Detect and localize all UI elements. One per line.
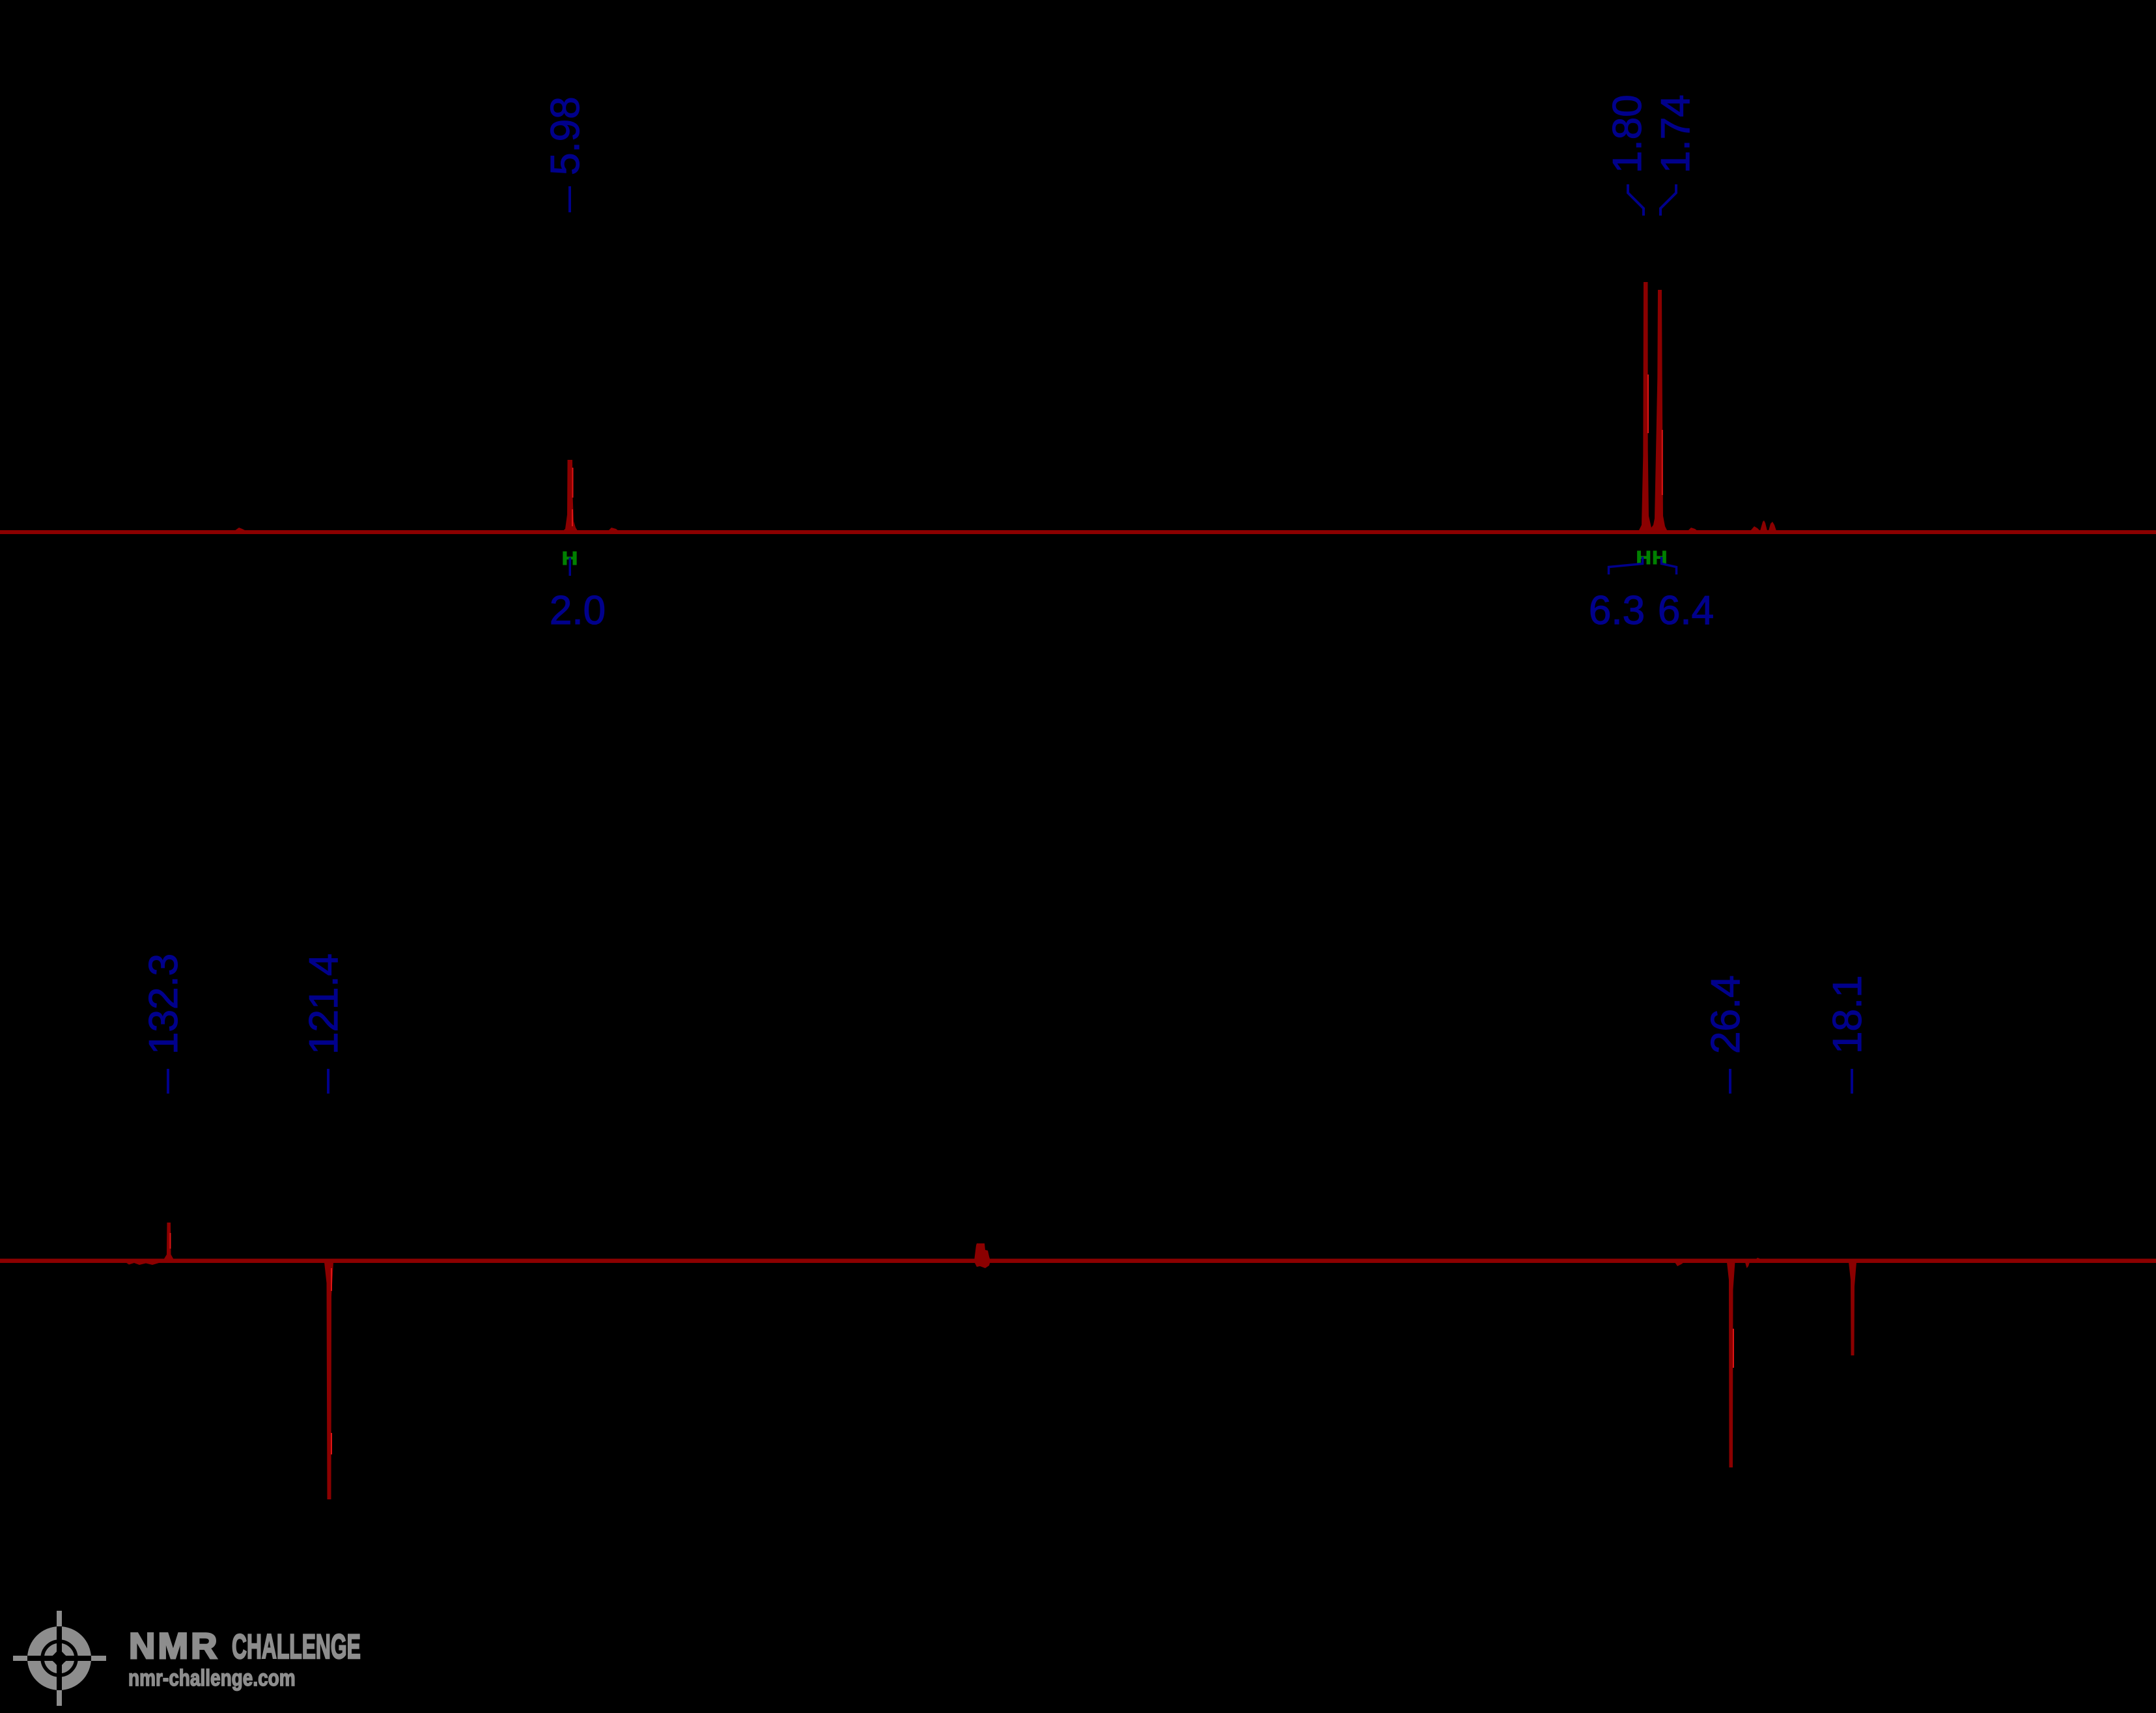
svg-text:18.1: 18.1 <box>1825 975 1870 1054</box>
peak 18.1 (down) <box>1849 1262 1856 1355</box>
svg-text:132.3: 132.3 <box>141 954 186 1055</box>
logo black ring <box>42 1641 76 1675</box>
svg-text:6.3: 6.3 <box>1589 588 1645 633</box>
logo crosshair vertical bar <box>57 1611 62 1706</box>
label tick 18.1 <box>1851 1069 1853 1094</box>
leader 1.80 <box>1628 184 1644 216</box>
peak 5.98 bright edge <box>572 468 574 498</box>
integral HH marker (doublet) <box>1636 547 1668 569</box>
peak 132.3 (up) <box>163 1223 175 1261</box>
svg-text:CHALLENGE: CHALLENGE <box>232 1628 361 1666</box>
logo text nmr-challenge.com <box>128 1665 296 1691</box>
leader 1.74 <box>1660 184 1676 216</box>
13C baseline <box>0 1259 2156 1264</box>
svg-text:121.4: 121.4 <box>301 954 346 1055</box>
svg-text:1.74: 1.74 <box>1653 94 1698 173</box>
svg-text:nmr-challenge.com: nmr-challenge.com <box>128 1665 296 1691</box>
baseline bump right of 5.98 <box>608 528 619 531</box>
label tick 5.98 <box>568 186 571 212</box>
svg-text:2.0: 2.0 <box>550 588 606 633</box>
integral H marker (5.98) <box>562 547 578 569</box>
peak 5.98 <box>561 460 579 533</box>
peak 26.4 bright edge <box>1733 1329 1734 1368</box>
logo crosshair horizontal bar <box>13 1656 106 1661</box>
satellite bumps <box>1688 528 1698 531</box>
logo black star <box>49 1649 70 1669</box>
peak 121.4 (down) <box>324 1262 333 1499</box>
logo black cross inside disc <box>57 1626 62 1690</box>
logo text CHALLENGE <box>232 1628 361 1666</box>
svg-text:6.4: 6.4 <box>1658 588 1714 633</box>
13C baseline noise left of 132.3 <box>125 1262 164 1266</box>
doublet bright edges <box>1647 375 1649 433</box>
svg-text:NMR: NMR <box>129 1625 220 1666</box>
13C noise near 26.4 <box>1675 1262 1684 1266</box>
logo disc <box>27 1626 91 1690</box>
integral tick (5.98) <box>569 558 572 576</box>
doublet peaks 1.80 / 1.74 <box>1638 282 1668 533</box>
svg-text:26.4: 26.4 <box>1703 975 1748 1054</box>
baseline noise bump left <box>234 528 246 531</box>
label tick 26.4 <box>1729 1069 1731 1094</box>
svg-text:1.80: 1.80 <box>1605 94 1650 173</box>
CDCl3 blob <box>974 1243 990 1268</box>
peak 132.3 bright edge <box>170 1233 171 1249</box>
peak 26.4 (down) <box>1727 1262 1735 1467</box>
peak 121.4 bright edges <box>331 1268 332 1291</box>
label tick 121.4 <box>327 1069 329 1094</box>
1H baseline <box>0 530 2156 534</box>
integral bracket right <box>1662 557 1677 574</box>
integral bracket left <box>1609 557 1643 574</box>
svg-text:5.98: 5.98 <box>543 96 588 175</box>
label tick 132.3 <box>167 1069 169 1094</box>
